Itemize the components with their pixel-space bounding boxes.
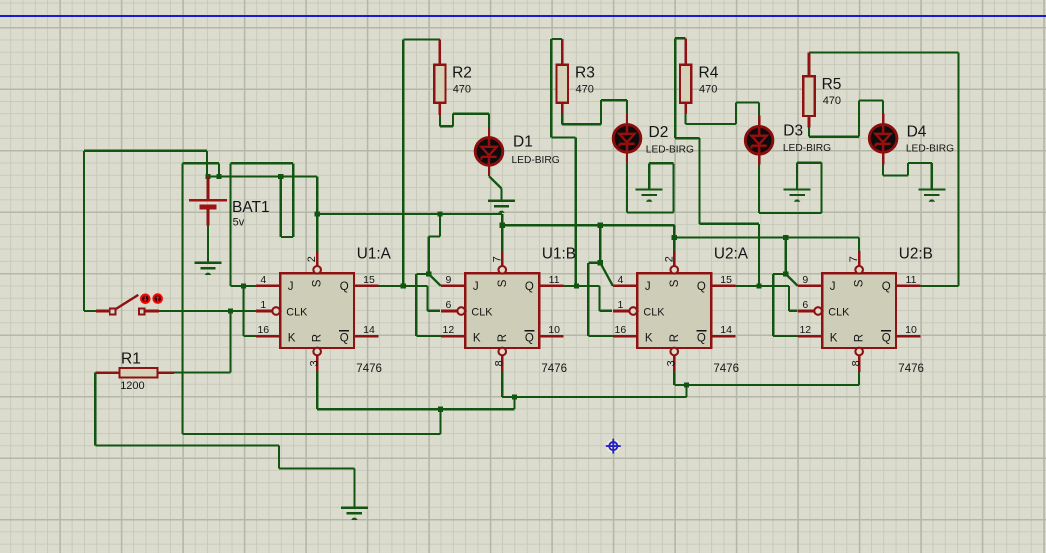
- wire D1 to ground: [489, 166, 502, 200]
- resistor R1: [95, 368, 174, 378]
- wire U2:A pin3 drop: [674, 372, 686, 385]
- svg-text:8: 8: [850, 360, 862, 366]
- LED D2: [613, 114, 641, 153]
- svg-text:9: 9: [802, 274, 808, 286]
- wire S-pin drop U1:B: [501, 214, 503, 251]
- label U1:A: [357, 245, 392, 262]
- svg-text:16: 16: [257, 324, 269, 336]
- wire loop to R-rail return: [183, 163, 220, 434]
- ground (battery): [195, 263, 222, 275]
- svg-text:CLK: CLK: [643, 306, 665, 318]
- svg-text:4: 4: [260, 274, 266, 286]
- wire D4 to ground: [883, 153, 932, 188]
- svg-text:R5: R5: [822, 76, 842, 93]
- svg-text:BAT1: BAT1: [232, 199, 270, 216]
- svg-text:15: 15: [363, 274, 375, 286]
- label R3 value: [576, 83, 594, 95]
- switch SW1: [96, 295, 159, 314]
- ground (D4): [918, 189, 945, 201]
- svg-text:5v: 5v: [233, 217, 245, 229]
- JK flip-flop U1:B (7476): [441, 251, 564, 372]
- wire R1 right to CLK net: [174, 311, 231, 373]
- wire J/K tie U2:B: [773, 237, 798, 336]
- wire Q1 up to R2: [403, 40, 440, 286]
- wire R1 left to ground: [95, 373, 354, 507]
- junction J/K U2:A: [598, 260, 603, 265]
- junction S-rail U1:B: [500, 223, 505, 228]
- svg-text:2: 2: [663, 256, 675, 262]
- svg-text:8: 8: [493, 360, 505, 366]
- label 7476 (U2:A): [713, 363, 739, 375]
- svg-text:7: 7: [491, 256, 503, 262]
- LED D3: [745, 116, 773, 155]
- junction battery+ C: [278, 174, 283, 179]
- wire S-rail segment 3: [674, 236, 859, 238]
- junction CLK/R1 node: [228, 308, 233, 313]
- svg-text:U1:B: U1:B: [542, 245, 576, 262]
- svg-text:14: 14: [363, 324, 375, 336]
- wire battery+ top rail to switch: [84, 151, 207, 311]
- label D1 type: [512, 155, 560, 166]
- label D1: [513, 134, 533, 151]
- resistor R2: [434, 40, 445, 116]
- svg-text:10: 10: [905, 324, 917, 336]
- label R4: [699, 64, 719, 81]
- junction S-rail J/K tap U1:B: [438, 211, 443, 216]
- wire battery- to ground: [207, 225, 209, 261]
- label U1:B: [542, 245, 576, 262]
- wire J/K tie U1:A: [231, 286, 256, 336]
- label R5 value: [823, 95, 841, 107]
- label D3 type: [783, 143, 831, 154]
- svg-text:J: J: [645, 281, 651, 293]
- label R2 value: [453, 83, 471, 95]
- wire S-rail segment 1: [317, 213, 502, 215]
- svg-text:14: 14: [720, 324, 732, 336]
- wire R3 to D2: [562, 100, 627, 124]
- label R1: [121, 351, 141, 368]
- label R2: [452, 64, 472, 81]
- wire R4 to D3: [686, 103, 760, 125]
- wire switch left: [84, 310, 96, 312]
- wire D3 to ground: [759, 155, 822, 213]
- label 7476 (U1:B): [541, 363, 567, 375]
- wire U1:B pin8 drop: [502, 372, 514, 397]
- svg-text:12: 12: [443, 324, 455, 336]
- svg-text:D3: D3: [783, 123, 803, 140]
- junction battery+ B: [216, 174, 221, 179]
- svg-text:7476: 7476: [713, 363, 739, 375]
- svg-text:6: 6: [445, 299, 451, 311]
- junction S-rail U1:A: [315, 211, 320, 216]
- label D3: [783, 123, 803, 140]
- svg-text:R: R: [312, 334, 324, 342]
- svg-text:470: 470: [699, 83, 717, 95]
- label BAT1: [232, 199, 270, 216]
- wire R-rail segment 2: [514, 396, 686, 398]
- svg-text:Q: Q: [525, 333, 534, 345]
- svg-text:K: K: [473, 332, 481, 344]
- svg-text:1: 1: [617, 299, 623, 311]
- resistor R3: [557, 39, 568, 114]
- svg-text:1200: 1200: [120, 380, 144, 392]
- svg-text:CLK: CLK: [471, 306, 493, 318]
- svg-text:Q: Q: [882, 333, 891, 345]
- svg-text:Q: Q: [340, 281, 349, 293]
- junction Q1/LED tap: [401, 283, 406, 288]
- svg-text:LED-BIRG: LED-BIRG: [512, 155, 560, 166]
- wire S-pin drop U2:B: [858, 237, 860, 251]
- svg-text:7476: 7476: [356, 363, 382, 375]
- svg-text:R: R: [497, 334, 509, 342]
- label U2:A: [714, 245, 749, 262]
- label D2: [649, 124, 669, 141]
- svg-text:S: S: [669, 279, 681, 287]
- junction S-rail J/K tap U2:B: [783, 235, 788, 240]
- label D4 type: [906, 144, 954, 155]
- svg-text:Q: Q: [882, 281, 891, 293]
- svg-text:10: 10: [548, 324, 560, 336]
- label 7476 (U2:B): [898, 363, 924, 375]
- sheet border line: [0, 15, 1046, 17]
- ground (D1): [488, 201, 515, 213]
- svg-text:R: R: [669, 334, 681, 342]
- wire Q3 up to R4: [675, 38, 759, 286]
- wire R2 to D1: [440, 114, 489, 128]
- wire J/K tie U1:B: [416, 214, 441, 336]
- svg-text:2: 2: [306, 256, 318, 262]
- label R3: [575, 64, 595, 81]
- svg-text:6: 6: [802, 299, 808, 311]
- junction R-rail U2:A: [684, 383, 689, 388]
- JK flip-flop U1:A (7476): [256, 251, 379, 372]
- svg-text:K: K: [830, 332, 838, 344]
- junction J/K U1:B: [426, 271, 431, 276]
- svg-text:Q: Q: [340, 333, 349, 345]
- resistor R4: [680, 38, 691, 114]
- svg-text:Q: Q: [525, 281, 534, 293]
- svg-text:K: K: [288, 332, 296, 344]
- svg-text:1: 1: [260, 299, 266, 311]
- wire S-pin drop U2:A: [673, 225, 675, 251]
- wire U1:B Q to U2:A CLK: [564, 286, 613, 311]
- svg-text:D2: D2: [649, 124, 669, 141]
- label U2:B: [899, 245, 933, 262]
- svg-text:3: 3: [308, 360, 320, 366]
- svg-text:4: 4: [617, 274, 623, 286]
- wire R-rail return to battery+: [183, 409, 441, 434]
- svg-text:CLK: CLK: [286, 306, 308, 318]
- wire R5 to D4: [809, 101, 883, 137]
- svg-text:Q: Q: [697, 281, 706, 293]
- wire loop to U1:A J/K: [231, 163, 294, 286]
- battery BAT1: [189, 177, 227, 226]
- wire U1:A Q to U1:B CLK: [379, 286, 440, 311]
- resistor R5: [803, 52, 814, 127]
- svg-text:470: 470: [453, 83, 471, 95]
- svg-text:S: S: [312, 279, 324, 287]
- wire U2:B Q to D4 branch: [920, 52, 958, 286]
- wire R-rail rise 1: [513, 397, 515, 409]
- wire R-rail segment 3: [687, 384, 860, 386]
- wire Q4 up to R5: [809, 51, 959, 53]
- ground (bottom): [341, 508, 368, 520]
- svg-text:R2: R2: [452, 64, 472, 81]
- svg-text:15: 15: [720, 274, 732, 286]
- svg-text:LED-BIRG: LED-BIRG: [906, 144, 954, 155]
- svg-text:11: 11: [549, 274, 560, 286]
- junction S-rail U2:A: [672, 235, 677, 240]
- svg-text:D4: D4: [907, 124, 927, 141]
- svg-text:CLK: CLK: [828, 306, 850, 318]
- wire U2:A Q to U2:B CLK: [725, 286, 798, 311]
- svg-text:R: R: [854, 334, 866, 342]
- wire Q2 up to R3: [551, 39, 575, 286]
- origin marker: [606, 439, 621, 454]
- junction R-rail U1:B: [512, 394, 517, 399]
- svg-text:S: S: [497, 279, 509, 287]
- svg-text:12: 12: [799, 324, 811, 336]
- svg-text:R3: R3: [575, 64, 595, 81]
- junction Q3/LED tap: [757, 283, 762, 288]
- svg-text:R4: R4: [699, 64, 719, 81]
- svg-text:7: 7: [848, 256, 860, 262]
- junction J/K U1:A: [241, 283, 246, 288]
- label 5v: [233, 217, 245, 229]
- label D2 type: [646, 145, 694, 156]
- svg-text:7476: 7476: [541, 363, 567, 375]
- junction Q2/LED tap: [574, 283, 579, 288]
- wire J/K tie U2:A: [588, 225, 613, 336]
- svg-text:470: 470: [576, 83, 594, 95]
- junction R-rail return: [438, 407, 443, 412]
- label R5: [822, 76, 842, 93]
- junction battery+ A: [205, 174, 210, 179]
- label D4: [907, 124, 927, 141]
- LED D4: [869, 114, 897, 153]
- wire battery top stub riser: [206, 151, 208, 177]
- svg-text:9: 9: [445, 274, 451, 286]
- svg-text:U2:B: U2:B: [899, 245, 933, 262]
- svg-text:470: 470: [823, 95, 841, 107]
- svg-text:S: S: [854, 279, 866, 287]
- svg-text:Q: Q: [697, 333, 706, 345]
- label 7476 (U1:A): [356, 363, 382, 375]
- junction S-rail J/K tap U2:A: [598, 223, 603, 228]
- LED D1: [475, 128, 503, 166]
- svg-text:16: 16: [615, 324, 627, 336]
- svg-text:LED-BIRG: LED-BIRG: [783, 143, 831, 154]
- svg-text:3: 3: [665, 360, 677, 366]
- label 1200: [120, 380, 144, 392]
- junction J/K U2:B: [783, 271, 788, 276]
- wire U2:B pin8 drop: [858, 372, 860, 385]
- wire S-rail segment 2: [502, 224, 674, 226]
- svg-text:U2:A: U2:A: [714, 245, 749, 262]
- ground (D2): [636, 189, 663, 201]
- svg-text:U1:A: U1:A: [357, 245, 392, 262]
- wire switch to U1:A CLK: [159, 310, 256, 312]
- ground (D3): [784, 189, 811, 201]
- wire battery+ rail: [207, 175, 317, 177]
- wire R-rail segment 1: [317, 408, 514, 410]
- wire R-rail U1:A pin3: [316, 372, 318, 409]
- svg-text:R1: R1: [121, 351, 141, 368]
- wire D2 to ground: [627, 153, 674, 212]
- svg-text:J: J: [288, 281, 294, 293]
- label R4 value: [699, 83, 717, 95]
- wire S-pin drop U1:A: [316, 177, 318, 252]
- wire R-rail rise 2: [685, 385, 687, 397]
- svg-text:J: J: [830, 281, 836, 293]
- svg-text:K: K: [645, 332, 653, 344]
- svg-text:LED-BIRG: LED-BIRG: [646, 145, 694, 156]
- svg-text:11: 11: [906, 274, 917, 286]
- JK flip-flop U2:A (7476): [613, 251, 736, 372]
- JK flip-flop U2:B (7476): [798, 251, 921, 372]
- switch toggle marker up: [153, 294, 162, 303]
- switch toggle marker down: [141, 295, 150, 304]
- svg-text:7476: 7476: [898, 363, 924, 375]
- svg-text:D1: D1: [513, 134, 533, 151]
- svg-text:J: J: [473, 281, 479, 293]
